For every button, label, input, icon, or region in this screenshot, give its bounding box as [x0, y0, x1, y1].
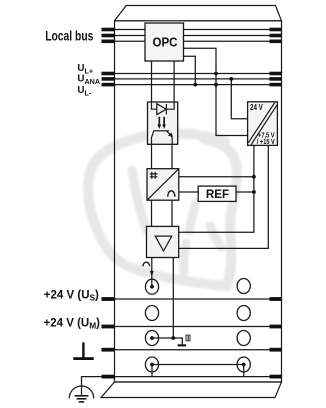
svg-text:Local bus: Local bus	[45, 28, 93, 43]
svg-text:OPC: OPC	[153, 36, 178, 50]
svg-text:/ +15 V: / +15 V	[257, 139, 275, 146]
svg-text:REF: REF	[206, 187, 229, 201]
svg-text:24 V: 24 V	[250, 103, 263, 112]
